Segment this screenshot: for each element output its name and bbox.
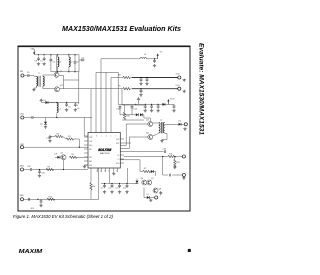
wire: J2 row <box>33 117 92 119</box>
capacitor C20 series <box>24 166 32 171</box>
input jack J4 <box>20 168 23 171</box>
wire: bottom right link <box>144 188 147 198</box>
capacitor C24 <box>126 184 129 188</box>
resistor R2 <box>50 134 63 138</box>
transistor Q7 <box>147 178 155 185</box>
wire: output rail 1 <box>111 77 123 79</box>
inductor L1 <box>58 55 62 72</box>
wire: output rail 2 <box>91 88 123 90</box>
svg-text:Evaluate: MAX1530/MAX1531: Evaluate: MAX1530/MAX1531 <box>198 43 205 135</box>
svg-text:VIN: VIN <box>31 49 35 51</box>
junction J4 row <box>39 169 40 170</box>
wire: right vertical trunk <box>144 115 150 118</box>
wire: IC right pin row 3 <box>120 151 163 153</box>
ground under T2 <box>160 140 163 143</box>
wire: bottom row <box>24 198 99 200</box>
transformer T2 <box>153 120 167 140</box>
inductor L7 <box>57 103 62 113</box>
wire: lower right rail <box>124 156 168 158</box>
capacitor C17 <box>150 104 153 108</box>
capacitor C13 <box>140 89 143 93</box>
wire: bus vertical 5 <box>110 78 112 133</box>
terminal TP1 <box>182 173 185 176</box>
resistor R10 vertical <box>123 104 130 119</box>
ground at VOUT2 <box>183 90 186 93</box>
capacitor C30 series <box>24 72 34 77</box>
wire: sense drop <box>163 157 168 176</box>
resistor R11 <box>168 154 176 158</box>
ground under C21 <box>103 190 106 193</box>
capacitor C22 <box>111 184 114 188</box>
capacitor C31 <box>38 170 45 175</box>
capacitor C21 <box>103 184 106 188</box>
capacitor C23 <box>118 184 121 188</box>
inductor L2 <box>69 55 73 72</box>
ground under C1 <box>42 62 45 65</box>
wire: IC bottom drop 1 <box>90 168 92 182</box>
capacitor C11 <box>140 78 143 82</box>
wire: right rail <box>143 103 174 105</box>
svg-text:VIN: VIN <box>20 71 24 73</box>
ground under C18 <box>156 109 159 112</box>
resistor R7 <box>143 168 151 172</box>
svg-text:C23: C23 <box>116 187 119 189</box>
wire: cap to terminal <box>172 174 182 176</box>
capacitor C32 <box>173 104 176 108</box>
sidebar vertical text: Evaluate: MAX1530/MAX1531 <box>198 43 205 135</box>
wire: charge pump bottom <box>122 119 144 121</box>
ground under C12 <box>145 82 148 85</box>
resistor R13 <box>47 197 55 201</box>
VIN input arrow <box>31 49 36 55</box>
resistor R12 vertical <box>174 157 181 168</box>
svg-text:BST: BST <box>116 143 119 145</box>
wire: D5 to terminal <box>181 123 184 125</box>
output terminal J5 <box>155 196 158 199</box>
capacitor C29 <box>40 199 43 203</box>
capacitor C28 series <box>29 198 30 201</box>
ground under C13 <box>139 93 142 96</box>
bus cap labels <box>101 187 127 189</box>
capacitor C26 <box>159 191 162 195</box>
transistor Q8 <box>153 188 162 193</box>
input jack J6 bottom row <box>20 198 23 201</box>
transistor Q10 <box>55 85 65 92</box>
ground under C6 <box>74 108 77 111</box>
wire: J4 row <box>32 169 88 171</box>
svg-text:VDD: VDD <box>170 99 175 101</box>
transistor Q4 <box>146 133 153 140</box>
ground under C19 <box>48 139 51 142</box>
wire: rails feed vertical <box>121 89 123 105</box>
wire: bus vertical 3 <box>100 59 102 133</box>
U1 bottom pin labels <box>96 170 117 172</box>
diode D5 <box>179 123 182 126</box>
wire: rail2 left reach <box>64 88 92 90</box>
ground under C31 <box>38 174 41 177</box>
ground under C22 <box>110 190 113 193</box>
ground under U1 <box>112 172 115 175</box>
transistor Q1 <box>54 55 64 78</box>
svg-text:1: 1 <box>96 170 97 172</box>
svg-text:4: 4 <box>108 170 109 172</box>
capacitor C27 series <box>170 174 171 177</box>
svg-text:DL: DL <box>117 155 119 157</box>
capacitor C2 <box>50 55 56 72</box>
terminal VFB <box>182 155 185 158</box>
capacitor C3 <box>79 58 85 62</box>
input jack J3 <box>20 146 23 149</box>
capacitor C19 <box>46 135 51 140</box>
VCC supply arrow <box>157 52 164 59</box>
resistor R4 <box>69 154 88 158</box>
ground at VOUT3 <box>183 127 186 130</box>
diode D2 vertical <box>40 118 47 126</box>
ground under D2 <box>44 126 47 129</box>
ground under C11 <box>139 82 142 85</box>
transformer T1 <box>34 73 54 89</box>
resistor R9 inline <box>118 86 131 90</box>
ground flag above rail <box>137 98 140 105</box>
U1 left pin stubs <box>84 137 88 165</box>
wire: R3 drop <box>78 139 80 147</box>
svg-text:MAXIM: MAXIM <box>98 148 112 152</box>
ground flag above D1 <box>40 99 43 102</box>
wire: T2 secondary out <box>167 123 178 125</box>
svg-text:SEQ: SEQ <box>20 165 25 167</box>
wire: bank bottom rail <box>51 71 79 73</box>
svg-text:MAX1530/MAX1531 Evaluation Kit: MAX1530/MAX1531 Evaluation Kits <box>62 24 181 33</box>
transistor Q3 <box>146 118 153 127</box>
resistor R5 <box>46 167 54 171</box>
ground under C0 <box>37 62 40 65</box>
svg-text:FB1: FB1 <box>89 149 92 151</box>
U1 pin name smudges <box>89 137 120 167</box>
ground under C5 <box>65 108 68 111</box>
svg-text:2.5V: 2.5V <box>176 85 181 87</box>
svg-text:FB2: FB2 <box>89 157 92 159</box>
capacitor C6 polarized <box>74 103 80 111</box>
wire: J2 drop to IC <box>84 118 88 137</box>
schematic border frame <box>18 46 190 211</box>
capacitor C7 series <box>24 116 33 119</box>
resistor R6 vertical <box>90 182 96 190</box>
capacitor C12 <box>146 78 149 82</box>
wire: upper rail to inductor L4 <box>101 58 140 60</box>
capacitor C1 <box>40 57 45 63</box>
capacitor C18 <box>157 104 160 108</box>
diode D8 <box>55 153 61 158</box>
svg-text:3: 3 <box>104 170 105 172</box>
inductor L4 <box>140 54 147 59</box>
diode D7 <box>147 196 150 199</box>
supply arrow VDD <box>167 99 175 105</box>
input jack J1 <box>21 74 24 77</box>
charge pump capacitor C15 <box>131 105 138 110</box>
input jack J2 <box>21 116 24 119</box>
wire: bus vertical 2 <box>95 72 97 132</box>
ground under C17 <box>150 109 153 112</box>
wire: IC right pin row 2 <box>120 137 147 149</box>
charge pump diode D2 <box>136 113 139 116</box>
capacitor C0 <box>35 57 40 63</box>
wire: IC right pin row 4 <box>120 160 143 172</box>
svg-text:2: 2 <box>100 170 101 172</box>
transistor Q5 <box>61 152 67 169</box>
svg-text:e: e <box>111 135 112 137</box>
svg-text:C22: C22 <box>108 187 111 189</box>
wire: D6 to Q bases <box>153 172 155 177</box>
wire: bottom bus <box>101 183 137 185</box>
svg-text:5: 5 <box>116 170 117 172</box>
ground under TP1 <box>182 177 185 180</box>
capacitor C33 series <box>163 149 168 154</box>
transistor Q6 <box>141 178 147 185</box>
svg-text:ON2: ON2 <box>89 141 92 143</box>
wire: L4 to vcc node <box>147 58 158 60</box>
output terminal VOUT2 <box>176 85 181 90</box>
ground under J5 <box>149 199 152 202</box>
U1 right pin stubs <box>120 139 131 163</box>
svg-text:C24: C24 <box>123 187 126 189</box>
capacitor C4 <box>74 55 80 72</box>
ground under C16 <box>144 109 147 112</box>
wire: vertical to bus <box>126 168 128 184</box>
wire: top input rail <box>34 54 79 56</box>
resistor R3 <box>63 136 80 140</box>
wire: charge pump top <box>122 104 144 106</box>
junction Q5 emitter <box>63 169 64 170</box>
ground under C29 <box>39 204 42 207</box>
ground under C23 <box>118 190 121 193</box>
svg-text:FB3: FB3 <box>89 161 92 163</box>
charge pump wires <box>118 72 144 114</box>
ground at VOUT1 <box>183 79 186 82</box>
resistor R8 inline <box>118 74 131 78</box>
U1 top pin labels <box>92 135 117 137</box>
wire: J3 row <box>24 146 89 148</box>
svg-text:MAX1530: MAX1530 <box>100 152 110 155</box>
capacitor C9 <box>153 59 156 63</box>
ground at U1 left <box>83 165 88 168</box>
frame top edge thick <box>18 45 191 47</box>
diode D9 vertical <box>136 179 139 184</box>
output terminal VOUT1 <box>176 74 181 79</box>
wire: lower right rail cont <box>174 156 182 158</box>
capacitor C16 <box>144 104 147 108</box>
wire: bus vertical 4 <box>105 72 107 132</box>
charge pump diode D3 <box>140 113 143 116</box>
svg-text:C21: C21 <box>101 187 104 189</box>
svg-text:Figure 1. MAX1530 EV Kit Schem: Figure 1. MAX1530 EV Kit Schematic (Shee… <box>13 214 113 219</box>
svg-text:MAXIM: MAXIM <box>19 249 44 255</box>
wire: Q emitter trunk <box>63 76 65 89</box>
diode D1 <box>41 100 55 104</box>
svg-text:b: b <box>96 135 97 137</box>
wire: drop to second row <box>78 72 80 104</box>
wire: IC pin to bottom bus <box>109 168 111 184</box>
output terminal VOUT3 <box>184 123 187 126</box>
diode D6 <box>151 170 154 173</box>
ground under R12 <box>173 166 176 169</box>
capacitor C5 <box>65 103 71 109</box>
junction dots <box>38 54 176 184</box>
wire: IC right pin row 1 <box>120 124 147 146</box>
wire: y80 link <box>64 79 79 81</box>
wire: second row rail <box>48 102 79 104</box>
ground under T1 <box>32 88 35 91</box>
wire: IC bottom drop 2 <box>98 168 100 199</box>
svg-text:d: d <box>106 135 107 137</box>
ground under C9 <box>153 64 156 67</box>
wire: bus vertical 1 <box>90 89 92 133</box>
page number 9 <box>188 249 191 252</box>
svg-text:a: a <box>92 135 93 137</box>
diode D4 <box>162 103 165 106</box>
ground under C24 <box>125 190 128 193</box>
wire: fb row link <box>96 71 118 73</box>
junction bottom row <box>37 199 38 200</box>
IC U1 MAX1530 <box>88 133 120 169</box>
svg-text:3.3V: 3.3V <box>176 74 181 76</box>
charge pump capacitor C14 <box>116 105 121 110</box>
ground under C32 <box>172 109 175 112</box>
U1 bottom pin stubs <box>98 168 118 172</box>
svg-text:ON1: ON1 <box>89 137 92 139</box>
wire: bank right drop <box>78 55 80 72</box>
